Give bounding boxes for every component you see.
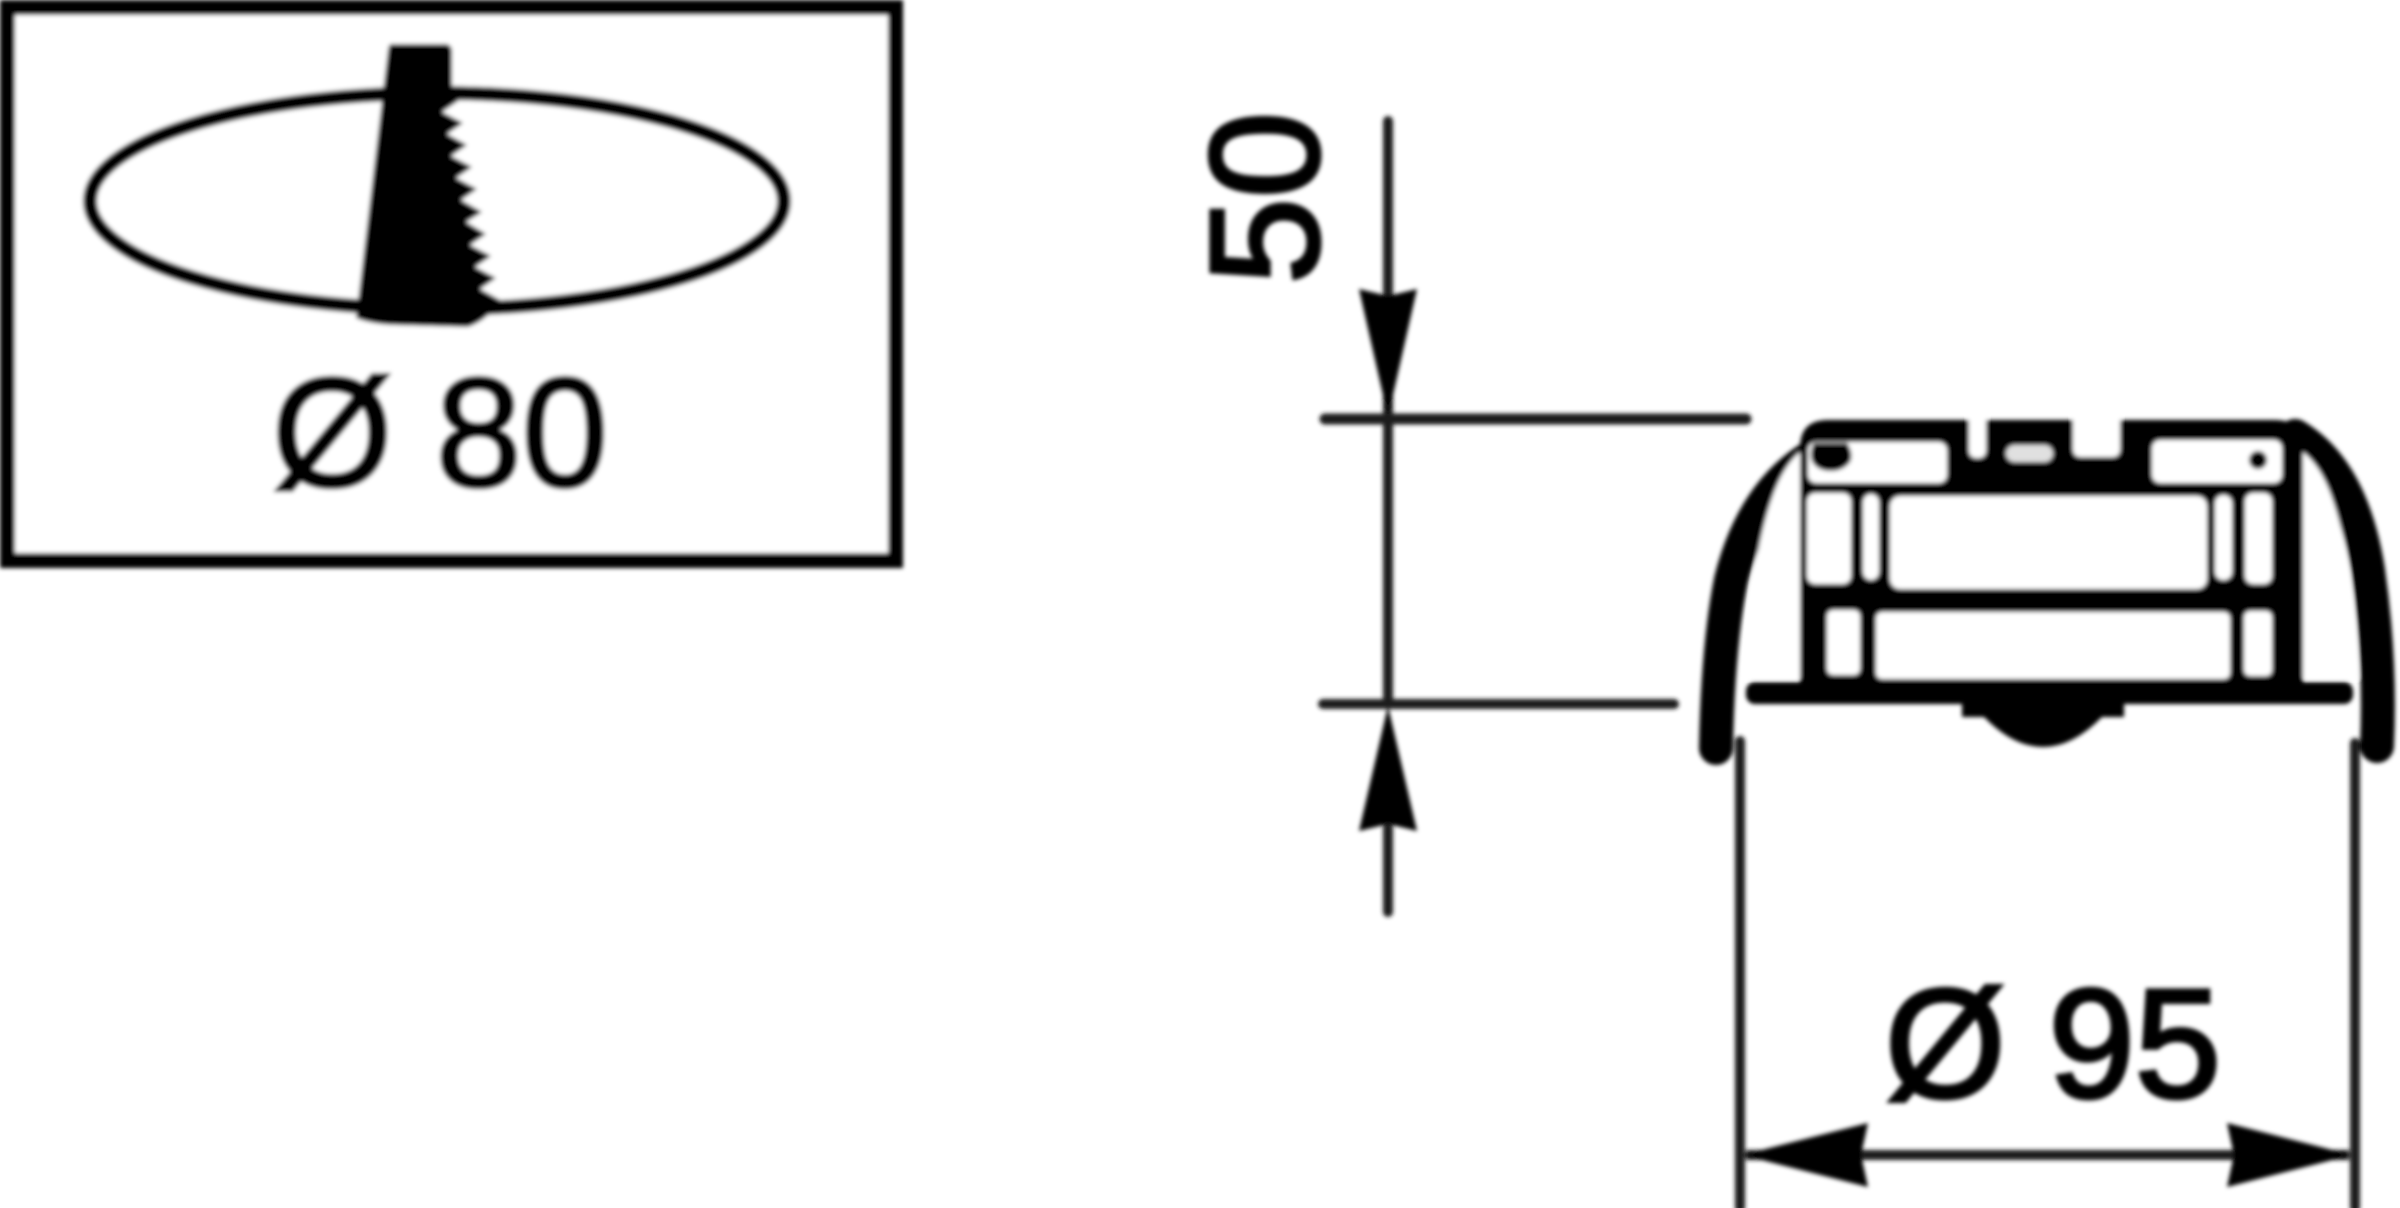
- left slot middle row: [1807, 493, 1851, 584]
- mounting flange: [1746, 682, 2353, 704]
- top-left terminal window: [1808, 442, 1947, 483]
- hole saw blade: [356, 44, 500, 327]
- ceiling hole ellipse: [90, 93, 784, 309]
- narrow slot left: [1863, 494, 1879, 580]
- lens bump: [1962, 695, 2124, 747]
- dimension Ø95 : right arrowhead: [2227, 1123, 2352, 1187]
- dimension 50 : lower tick line: [1323, 699, 1674, 709]
- dimension 50 : upper tick line: [1325, 414, 1746, 425]
- svg-text:50: 50: [1178, 112, 1351, 284]
- fixture body (black can): [1800, 420, 2303, 686]
- dimension 50 : down arrowhead: [1359, 289, 1417, 417]
- right spring clip: [2295, 436, 2378, 746]
- top-right terminal window: [2152, 440, 2282, 483]
- dimension 50 : lower stub of dim line: [1383, 828, 1393, 912]
- svg-text:Ø 95: Ø 95: [1885, 957, 2221, 1130]
- top notch wide (center): [2073, 406, 2120, 457]
- terminal dome: [1811, 443, 1852, 471]
- dimension Ø95 : shaft line: [1746, 1150, 2349, 1160]
- dimension Ø95 : left arrowhead: [1742, 1123, 1868, 1187]
- dimension 50 : upper extension of dim line: [1383, 121, 1393, 412]
- lamp cavity window: [1890, 496, 2207, 589]
- right slot middle row: [2245, 493, 2272, 584]
- terminal screw circle: [2249, 451, 2267, 469]
- svg-text:Ø 80: Ø 80: [272, 346, 608, 519]
- white wedge between right clip and body wall: [2303, 452, 2358, 678]
- lower big window: [1876, 612, 2230, 679]
- cut-out view box frame: [8, 8, 896, 561]
- left spring clip: [1716, 441, 1845, 748]
- top notch small (left): [1969, 406, 1986, 458]
- dimension 50 : middle vertical line: [1383, 419, 1393, 703]
- dimension Ø95 : left extension line: [1735, 741, 1745, 1208]
- dimension Ø95 : right extension line: [2350, 743, 2360, 1208]
- lower-right small window: [2244, 611, 2272, 676]
- dimension 50 : up arrowhead: [1359, 706, 1417, 831]
- narrow slot right: [2215, 495, 2232, 580]
- white wedge between left clip and body wall: [1746, 452, 1800, 678]
- lower-left small window: [1827, 610, 1860, 675]
- small slot in top band: [2006, 445, 2053, 462]
